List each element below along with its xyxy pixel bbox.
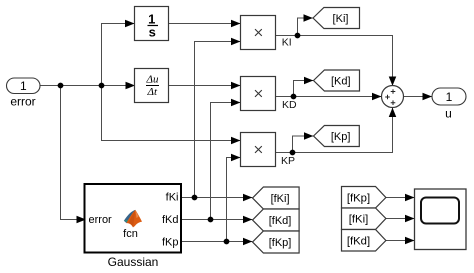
svg-text:fKd: fKd	[162, 214, 179, 226]
svg-text:[Ki]: [Ki]	[333, 13, 349, 25]
svg-text:KI: KI	[282, 37, 292, 49]
svg-text:[fKi]: [fKi]	[349, 214, 368, 226]
svg-text:s: s	[149, 24, 156, 39]
svg-text:[fKp]: [fKp]	[269, 237, 292, 249]
svg-text:u: u	[445, 107, 452, 121]
svg-text:Gaussian: Gaussian	[108, 255, 159, 269]
svg-text:Δt: Δt	[147, 86, 158, 98]
svg-text:[fKp]: [fKp]	[347, 193, 370, 205]
svg-text:[fKd]: [fKd]	[347, 236, 370, 248]
svg-text:1: 1	[446, 90, 453, 104]
svg-text:1: 1	[20, 79, 27, 93]
svg-text:KD: KD	[282, 99, 297, 111]
svg-text:[Kp]: [Kp]	[331, 131, 351, 143]
svg-text:fKp: fKp	[162, 237, 179, 249]
svg-text:error: error	[10, 95, 35, 109]
svg-text:[fKi]: [fKi]	[271, 193, 290, 205]
svg-text:Δu: Δu	[146, 73, 159, 85]
svg-text:KP: KP	[281, 155, 295, 167]
svg-text:[fKd]: [fKd]	[269, 215, 292, 227]
svg-text:fcn: fcn	[123, 228, 138, 240]
svg-text:fKi: fKi	[166, 192, 179, 204]
svg-text:error: error	[89, 214, 113, 226]
svg-text:[Kd]: [Kd]	[331, 76, 351, 88]
